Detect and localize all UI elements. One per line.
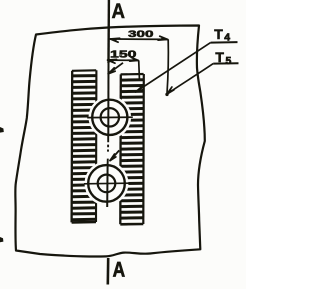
svg-text:150: 150 xyxy=(110,49,137,60)
lower spot weld outer circle xyxy=(88,165,125,202)
svg-text:A: A xyxy=(113,258,126,281)
centerline lower run xyxy=(106,165,108,207)
T5 underline xyxy=(213,62,238,64)
lower spot crosshair xyxy=(84,182,129,185)
scan mark left edge lower xyxy=(0,237,3,242)
right cover strap (hatched bar) xyxy=(120,74,144,224)
section line stub (bottom) xyxy=(107,258,110,285)
svg-text:T: T xyxy=(214,26,223,42)
T4 underline xyxy=(211,41,238,44)
section centerline A-A (top run) xyxy=(107,0,110,63)
small arrow at seam center (between spots) xyxy=(110,150,119,160)
extension line from 150 to strap edge xyxy=(138,60,141,78)
svg-text:T: T xyxy=(215,49,224,65)
T4 leader line xyxy=(136,43,211,92)
dimension line 300 xyxy=(110,38,167,40)
svg-text:A: A xyxy=(112,0,126,23)
white clearance around upper spot xyxy=(89,96,132,139)
plate outline xyxy=(15,26,204,257)
left cover strap (hatched bar) xyxy=(72,70,97,222)
svg-text:5: 5 xyxy=(226,55,232,67)
lower spot weld inner circle xyxy=(98,175,116,193)
upper spot weld outer circle xyxy=(92,100,127,135)
scan mark left edge upper xyxy=(0,127,4,133)
leader from 300 down to plate point xyxy=(167,39,168,93)
upper spot weld inner circle xyxy=(101,108,119,126)
dimension line 150 xyxy=(108,59,139,61)
upper spot crosshair xyxy=(87,116,133,118)
svg-text:300: 300 xyxy=(128,29,154,40)
T5 leader line xyxy=(168,64,213,94)
white clearance around lower spot xyxy=(85,161,129,205)
centerline dashes between spots xyxy=(107,136,110,165)
paper background xyxy=(0,0,246,289)
small arrow at seam center (upper) xyxy=(108,63,123,74)
